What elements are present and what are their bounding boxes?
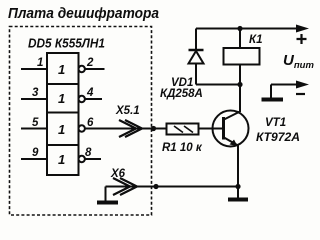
connector X6 chevron 1: [113, 178, 130, 195]
svg-text:6: 6: [87, 117, 94, 129]
svg-text:Х5.1: Х5.1: [115, 105, 140, 117]
inversion bubble pin 4: [79, 96, 85, 102]
wire pin 6 to resistor R1: [85, 128, 167, 130]
plus sign: [297, 34, 307, 44]
wire relay bottom: [239, 65, 241, 85]
ground bar (negative supply): [262, 98, 284, 102]
top supply wire: [196, 28, 298, 30]
junction dot on top wire: [237, 26, 242, 31]
wire X6 horizontal: [106, 186, 239, 188]
negative supply wire: [271, 84, 298, 86]
minus sign: [296, 93, 305, 95]
svg-text:4: 4: [86, 87, 94, 99]
svg-text:9: 9: [32, 147, 39, 159]
junction at board edge (X6): [153, 184, 158, 189]
wire pin 2 stub: [85, 68, 105, 70]
svg-text:1: 1: [58, 62, 65, 77]
wire diode bottom horizontal: [196, 84, 240, 86]
negative supply down lead: [270, 85, 272, 99]
wire X6 ground riser: [105, 187, 107, 202]
transistor VT1 circle: [213, 111, 249, 147]
transistor collector stroke: [224, 112, 240, 120]
svg-text:Х6: Х6: [110, 168, 126, 180]
wire pin 8 stub: [85, 158, 101, 160]
svg-text:1: 1: [37, 57, 43, 69]
IC divider 1: [47, 83, 79, 85]
inversion bubble pin 8: [79, 156, 85, 162]
wire emitter down: [237, 146, 239, 199]
diode VD1 triangle: [189, 51, 204, 64]
connector X5.1 chevron 2: [125, 120, 142, 137]
svg-text:1: 1: [58, 152, 65, 167]
wire pin 5: [21, 128, 47, 130]
resistor power slash 1: [174, 126, 183, 133]
op IC DD5 body: [47, 53, 79, 175]
diode VD1 cathode bar: [189, 49, 204, 52]
supply arrow +: [296, 25, 309, 33]
ground bar (emitter): [228, 198, 248, 202]
svg-text:8: 8: [85, 147, 92, 159]
svg-text:DD5 К555ЛН1: DD5 К555ЛН1: [28, 37, 105, 51]
transistor emitter stroke: [224, 138, 238, 146]
svg-text:5: 5: [32, 117, 39, 129]
svg-text:КД258А: КД258А: [160, 88, 203, 100]
svg-text:1: 1: [58, 122, 65, 137]
junction dot emitter/X6 wire: [235, 184, 240, 189]
wire pin 4 stub: [85, 98, 102, 100]
svg-text:1: 1: [58, 91, 65, 106]
connector X6 chevron 2: [120, 178, 137, 195]
IC divider 2: [47, 112, 79, 114]
wire pin 3: [21, 98, 47, 100]
svg-text:К1: К1: [249, 34, 262, 46]
svg-text:VT1: VT1: [265, 117, 286, 129]
svg-text:3: 3: [32, 87, 39, 99]
inversion bubble pin 2: [79, 66, 85, 72]
svg-text:2: 2: [86, 57, 94, 69]
IC divider 3: [47, 144, 79, 146]
wire pin 9: [21, 158, 47, 160]
inversion bubble pin 6: [79, 125, 85, 131]
negative supply arrow: [296, 81, 309, 89]
transistor base bar: [222, 117, 225, 140]
emitter arrowhead: [230, 140, 238, 147]
board outline (dashed): [10, 27, 152, 216]
relay K1 coil body: [224, 48, 260, 65]
svg-text:R1 10 к: R1 10 к: [162, 142, 203, 154]
connector X5.1 chevron 1: [119, 120, 136, 137]
junction at board edge (X5.1): [151, 126, 156, 131]
resistor power slash 2: [184, 126, 193, 133]
junction dot at diode bottom wire: [237, 82, 242, 87]
wire diode anode lead: [195, 63, 197, 85]
wire relay top: [239, 29, 241, 49]
ground bar (X6): [97, 201, 118, 205]
wire diode cathode lead: [195, 29, 197, 51]
resistor R1 body: [167, 124, 199, 135]
svg-text:Плата дешифратора: Плата дешифратора: [8, 6, 159, 22]
svg-text:КТ972А: КТ972А: [256, 132, 300, 144]
wire pin 1: [21, 68, 47, 70]
wire R1 to VT1 base: [199, 128, 224, 130]
wire collector up to relay/diode junction: [239, 85, 241, 113]
